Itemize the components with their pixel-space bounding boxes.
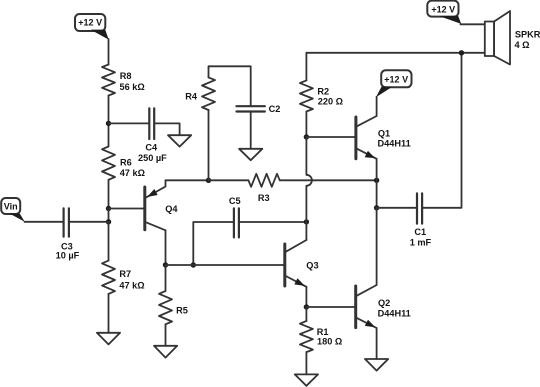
resistor R8 — [102, 65, 145, 96]
node D (Q4 emitter/R4/R3 junction) — [206, 178, 211, 183]
node A (R8/R6/C4 junction) — [106, 121, 111, 126]
wire node K down to Q2 collector — [376, 208, 378, 285]
ground (Q2) — [365, 359, 388, 371]
wire node B to Q4 base — [109, 208, 144, 210]
svg-text:+12 V: +12 V — [384, 75, 408, 85]
svg-text:+12 V: +12 V — [431, 4, 455, 14]
wire Q3 emitter to node J — [305, 287, 307, 307]
top rail R2 to speaker — [306, 52, 484, 54]
wire R5 to ground — [165, 324, 167, 346]
wire node A to C4 — [109, 122, 149, 124]
wire R8 to node A and on to R6 — [108, 96, 110, 147]
wire C3 to node C — [70, 221, 109, 223]
svg-text:R7: R7 — [119, 269, 131, 279]
capacitor C1 — [410, 193, 432, 247]
ground (R7) — [97, 333, 120, 345]
+12V supply flag (middle) — [376, 70, 412, 97]
ground (C2) — [239, 149, 262, 160]
svg-text:R6: R6 — [120, 157, 132, 167]
node J (Q3 emitter/R1/Q2 base junction) — [304, 304, 309, 309]
svg-text:SPKR: SPKR — [515, 29, 540, 39]
wire +12V flag to speaker top — [461, 23, 485, 25]
svg-text:R5: R5 — [176, 305, 188, 315]
svg-text:220 Ω: 220 Ω — [318, 96, 343, 106]
resistor R6 — [102, 147, 145, 180]
wire hop over bus — [306, 175, 311, 186]
svg-text:C1: C1 — [414, 227, 426, 237]
svg-text:R1: R1 — [317, 327, 329, 337]
node F (C5/R2 line junction) — [304, 219, 309, 224]
wire R4 top to C2 top — [209, 66, 251, 105]
wire node K to C1 — [377, 207, 416, 209]
wire R3 to node E — [280, 179, 377, 181]
wire R1 to ground — [305, 352, 307, 374]
node H (C5 branch junction) — [191, 262, 196, 267]
svg-text:180 Ω: 180 Ω — [317, 337, 342, 347]
node L (rail/C1/speaker junction) — [459, 50, 464, 55]
wire rail corner down to R2 — [305, 53, 307, 81]
svg-text:Vin: Vin — [4, 201, 18, 211]
svg-text:250 µF: 250 µF — [138, 153, 167, 163]
wire node I down to hop — [305, 137, 307, 175]
svg-text:C4: C4 — [145, 143, 158, 153]
node K (C1 junction) — [374, 205, 379, 210]
resistor R1 — [300, 321, 342, 352]
wire node E to node K — [376, 180, 378, 208]
svg-text:D44H11: D44H11 — [378, 139, 411, 149]
wire C4 to ground — [155, 123, 179, 134]
wire node B down to node C — [108, 209, 110, 222]
resistor R2 — [300, 80, 343, 111]
wire node J to Q2 base — [306, 306, 354, 308]
Vin input flag — [1, 198, 25, 222]
capacitor C4 — [138, 108, 167, 163]
wire R6 to node B — [108, 180, 110, 209]
ground (R5) — [154, 346, 177, 358]
wire node J to R1 — [305, 307, 307, 321]
svg-text:C5: C5 — [229, 196, 241, 206]
wire +12V to R8 — [108, 39, 110, 65]
wire C5 left branch — [193, 222, 233, 265]
transistor Q1 (NPN) D44H11 — [356, 116, 411, 159]
+12V supply flag (top left) — [75, 14, 109, 40]
wire Q4 collector down to node G — [165, 230, 167, 265]
wire node D to R3 — [209, 179, 249, 181]
svg-text:47 kΩ: 47 kΩ — [119, 281, 144, 291]
+12V supply flag (top right) — [427, 1, 461, 24]
ground (C4) — [168, 135, 191, 146]
wire node I to Q1 base — [306, 136, 354, 138]
node C (C3/R7 junction) — [106, 219, 111, 224]
wire Q2 emitter to ground — [376, 328, 378, 359]
svg-text:4 Ω: 4 Ω — [515, 40, 530, 50]
wire C2 to ground — [250, 113, 252, 149]
capacitor C2 — [237, 104, 281, 114]
svg-text:Q4: Q4 — [165, 204, 178, 214]
wire C1 right up to node L — [423, 53, 461, 208]
resistor R3 — [248, 174, 279, 203]
wire Q1 emitter to node E — [376, 159, 378, 181]
resistor R7 — [102, 261, 145, 294]
wire Q1 collector to +12V flag — [376, 97, 378, 116]
svg-text:10 µF: 10 µF — [56, 250, 80, 260]
transistor Q4 (PNP) — [145, 180, 179, 230]
capacitor C5 — [229, 196, 241, 237]
svg-text:R8: R8 — [120, 71, 132, 81]
svg-text:Q1: Q1 — [378, 129, 390, 139]
wire R7 to ground — [108, 294, 110, 333]
transistor Q2 (NPN) D44H11 — [356, 285, 411, 328]
wire node C to R7 — [108, 222, 110, 261]
wire Q4 emitter to node D — [166, 179, 209, 181]
svg-text:R3: R3 — [258, 193, 270, 203]
svg-text:+12 V: +12 V — [78, 17, 102, 27]
ground (R1) — [295, 374, 318, 385]
wire C5 right to node F — [240, 221, 307, 223]
wire node F to Q3 collector — [305, 222, 307, 240]
svg-text:R4: R4 — [185, 91, 198, 101]
speaker SPKR 4 ohm — [485, 11, 540, 65]
resistor R4 — [185, 77, 215, 110]
svg-text:C2: C2 — [269, 104, 281, 114]
svg-text:56 kΩ: 56 kΩ — [120, 82, 145, 92]
svg-text:Q2: Q2 — [378, 298, 390, 308]
svg-text:47 kΩ: 47 kΩ — [120, 168, 145, 178]
transistor Q3 (NPN) — [285, 240, 319, 287]
svg-text:Q3: Q3 — [306, 261, 318, 271]
node E (R3/Q1 emitter/Q2 collector junction) — [374, 178, 379, 183]
svg-text:R2: R2 — [317, 86, 329, 96]
node B (R6/C3/Q4 base junction) — [106, 206, 111, 211]
wire Vin to C3 — [25, 221, 63, 223]
wire hop to node F — [305, 186, 307, 222]
node G (Q4 collector/R5 junction) — [163, 262, 168, 267]
resistor R5 — [159, 265, 188, 324]
wire R2 to node I — [305, 112, 307, 138]
svg-text:1 mF: 1 mF — [410, 238, 432, 248]
wire node G to Q3 base — [166, 264, 284, 266]
node I (R2/Q1 base junction) — [304, 134, 309, 139]
svg-text:D44H11: D44H11 — [378, 308, 411, 318]
wire node D up to R4 — [208, 110, 210, 180]
capacitor C3 — [56, 208, 80, 260]
